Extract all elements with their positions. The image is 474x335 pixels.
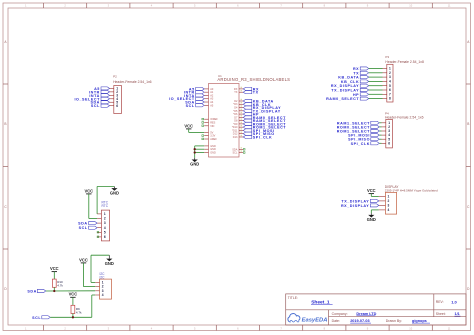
net flag SPI_MISO (U1) bbox=[243, 132, 274, 136]
svg-text:VCC: VCC bbox=[184, 123, 193, 128]
net flag RAM0_SELECT (P3 pin 8) bbox=[326, 97, 369, 101]
svg-text:Company:: Company: bbox=[332, 312, 348, 316]
svg-text:4.7k: 4.7k bbox=[57, 284, 63, 288]
svg-text:GND: GND bbox=[190, 162, 199, 167]
net flag ROM0_SELECT (U1) bbox=[243, 122, 286, 126]
svg-text:8: 8 bbox=[389, 97, 391, 101]
wire SPI_MOSI to P4 pin 4 bbox=[379, 134, 381, 136]
svg-text:SDA: SDA bbox=[78, 222, 87, 226]
svg-text:3: 3 bbox=[104, 221, 106, 225]
svg-text:VCC: VCC bbox=[79, 257, 88, 262]
svg-text:VCC: VCC bbox=[367, 188, 376, 193]
P4 pin numbers 1-6 bbox=[388, 121, 390, 145]
wire I2C pin1 to GND bbox=[91, 255, 109, 282]
net flag ROM1_SELECT (U1) bbox=[243, 126, 286, 130]
svg-text:REV:: REV: bbox=[436, 300, 444, 304]
ground GND above RTC bbox=[110, 187, 119, 196]
svg-text:RAM0_SELECT: RAM0_SELECT bbox=[326, 97, 359, 101]
P3 pin numbers 1-8 bbox=[389, 67, 391, 101]
svg-text:Header-Female 2.54_1x6: Header-Female 2.54_1x6 bbox=[113, 80, 152, 84]
net flag RX_DISPLAY (P3 pin 5) bbox=[331, 84, 369, 88]
net flag KB_CLK (U1) bbox=[243, 103, 271, 107]
P2 pin numbers 1-6 bbox=[116, 87, 118, 108]
wire VCC to RTC pin2 bbox=[89, 194, 97, 219]
svg-text:GND: GND bbox=[110, 190, 119, 195]
company field bbox=[332, 312, 377, 316]
svg-text:1: 1 bbox=[388, 195, 390, 199]
svg-text:AREF: AREF bbox=[210, 138, 217, 141]
svg-text:TX: TX bbox=[234, 91, 238, 94]
drawn-by field bbox=[386, 319, 430, 323]
wire KB_CLK to P3 pin 4 bbox=[369, 80, 383, 82]
net flag RAM1_SELECT (P4 pin 1) bbox=[337, 121, 379, 125]
svg-text:gignops: gignops bbox=[412, 319, 427, 323]
svg-text:VCC: VCC bbox=[69, 292, 78, 297]
connector DISPLAY 2205-1*4P H=8.5MM Ytype Gold-plated bbox=[379, 185, 438, 214]
net flag IO_SELECT (U1) bbox=[169, 97, 204, 101]
net flag KB_DATA (U1) bbox=[243, 99, 273, 103]
svg-text:5: 5 bbox=[104, 230, 106, 234]
svg-text:4: 4 bbox=[388, 208, 390, 212]
svg-text:SPI_CLK: SPI_CLK bbox=[253, 135, 272, 139]
ground GND below U1 bbox=[190, 158, 199, 167]
svg-text:4: 4 bbox=[102, 293, 104, 297]
svg-text:VCC: VCC bbox=[50, 266, 59, 271]
wire RAM0_SELECT to P3 pin 8 bbox=[369, 98, 383, 100]
net flag SCL (bottom left) bbox=[32, 316, 50, 320]
wire SDA to I2C pin3 bbox=[46, 290, 95, 292]
date field bbox=[332, 319, 371, 323]
power flag VCC at U1 5V bbox=[184, 123, 193, 132]
junction SDA/R10 bbox=[53, 290, 55, 292]
svg-text:SCL: SCL bbox=[91, 104, 100, 108]
svg-text:GND: GND bbox=[210, 151, 216, 154]
net flag KB_CLK (P3 pin 4) bbox=[341, 80, 369, 84]
U1 pin number marks bbox=[241, 87, 242, 152]
svg-text:2: 2 bbox=[104, 217, 106, 221]
net flag RX_DISPLAY (U1) bbox=[243, 106, 281, 110]
stub U1 SDA SCL bbox=[243, 149, 245, 154]
net flag RAM1_SELECT (U1) bbox=[243, 119, 286, 123]
svg-text:RTC: RTC bbox=[102, 204, 109, 208]
rtc module RTC bbox=[97, 200, 110, 241]
net flag SCL (P2 pin 6) bbox=[91, 104, 110, 108]
svg-text:6: 6 bbox=[388, 141, 390, 145]
no-connect stubs U1 IOREF RES VIN 3.3V AREF bbox=[202, 118, 204, 139]
net flag SDA (RTC pin3) bbox=[78, 222, 97, 226]
svg-text:P2: P2 bbox=[113, 74, 117, 78]
svg-text:RX_DISPLAY: RX_DISPLAY bbox=[341, 204, 369, 208]
U1 right pin names bbox=[232, 88, 238, 155]
net flag HP (P3 pin 7) bbox=[353, 93, 369, 97]
net flag TX_DISPLAY (DISPLAY pin2) bbox=[341, 199, 378, 203]
net flag RX_DISPLAY (DISPLAY pin3) bbox=[341, 204, 379, 208]
svg-text:1/1: 1/1 bbox=[455, 312, 460, 316]
net flag SPI_MOSI (P4 pin 4) bbox=[348, 134, 379, 138]
EasyEDA logo bbox=[288, 314, 327, 324]
wire VCC to U1 5V bbox=[189, 131, 205, 133]
connector P2 Header-Female 2.54_1x6 bbox=[110, 74, 152, 113]
wire DISPLAY pin4 to GND bbox=[371, 210, 379, 213]
net flag ROM0_SELECT (P4 pin 2) bbox=[337, 125, 380, 129]
wire SPI_CLK to P4 pin 6 bbox=[379, 142, 381, 144]
wire SPI_MISO to P4 pin 5 bbox=[379, 138, 381, 140]
net flag A5 (U1) bbox=[189, 87, 204, 91]
svg-text:2: 2 bbox=[388, 199, 390, 203]
junction U1 GND 2 bbox=[194, 151, 196, 153]
junction U1 GND 1 bbox=[194, 148, 196, 150]
net flag SCL (U1) bbox=[186, 104, 205, 108]
wire ROM0_SELECT to P4 pin 2 bbox=[379, 126, 381, 128]
net flag RAM0_SELECT (U1) bbox=[243, 116, 286, 120]
power flag VCC at RTC bbox=[84, 188, 93, 194]
power flag VCC above R9 bbox=[69, 292, 78, 298]
connector P4 Header-Female 2.54_1x6 bbox=[382, 111, 424, 147]
sheet field bbox=[436, 312, 461, 316]
svg-text:GND: GND bbox=[105, 261, 114, 266]
svg-text:SCL: SCL bbox=[186, 104, 195, 108]
svg-text:TITLE:: TITLE: bbox=[288, 296, 298, 300]
net flag SDA (P2 pin 5) bbox=[90, 101, 109, 105]
svg-text:SCL: SCL bbox=[79, 226, 88, 230]
wire SCL to I2C pin4 bbox=[50, 295, 95, 317]
svg-text:SCL: SCL bbox=[32, 316, 41, 320]
RTC pin numbers 1-6 bbox=[104, 212, 106, 239]
DISPLAY pin numbers 1-4 bbox=[388, 195, 390, 213]
svg-text:1.0: 1.0 bbox=[451, 299, 457, 304]
ground GND above I2C bbox=[105, 255, 114, 266]
svg-text:D13: D13 bbox=[233, 136, 238, 139]
power flag VCC at DISPLAY bbox=[367, 188, 376, 194]
net flag RX (U1) bbox=[243, 87, 259, 91]
svg-text:6: 6 bbox=[116, 104, 118, 108]
stub RTC pins 5-6 bbox=[97, 231, 99, 237]
net flag INTA (U1) bbox=[184, 94, 204, 98]
net flag TX (P3 pin 2) bbox=[353, 71, 368, 75]
U1 left pin names bbox=[210, 88, 218, 155]
resistor R10 4.7k bbox=[52, 272, 63, 291]
net flag A5 (P2 pin 1) bbox=[94, 87, 109, 91]
wire TX_DISPLAY to P3 pin 6 bbox=[369, 89, 383, 91]
net flag INTR (P2 pin 2) bbox=[89, 90, 109, 94]
wire U1 GND bus bbox=[195, 146, 205, 158]
svg-text:GND: GND bbox=[367, 217, 376, 222]
svg-text:Drawn By:: Drawn By: bbox=[386, 319, 402, 323]
svg-text:6: 6 bbox=[104, 235, 106, 239]
svg-text:ARDUINO_R3_SHIELDNOLABELS: ARDUINO_R3_SHIELDNOLABELS bbox=[217, 77, 290, 82]
connector P3 Header-Female 2.54_1x8 bbox=[383, 55, 424, 102]
net flag KB_DATA (P3 pin 3) bbox=[338, 76, 368, 80]
svg-text:3: 3 bbox=[388, 204, 390, 208]
wire RTC pin1 to GND bbox=[97, 187, 114, 214]
junction SCL/R9 bbox=[72, 316, 74, 318]
title text Sheet_1 bbox=[288, 296, 333, 306]
net flag SPI_MISO (P4 pin 5) bbox=[348, 138, 379, 142]
svg-text:EasyEDA: EasyEDA bbox=[302, 317, 328, 323]
title block bbox=[286, 294, 466, 325]
net flag INTA (P2 pin 3) bbox=[89, 94, 109, 98]
svg-text:4: 4 bbox=[104, 226, 106, 230]
net flag TX (U1) bbox=[243, 91, 258, 95]
net flag SPI_MOSI (U1) bbox=[243, 129, 274, 133]
connector I2C bbox=[95, 272, 111, 299]
net flag HP (U1) bbox=[243, 113, 259, 117]
net flag IO_SELECT (P2 pin 4) bbox=[74, 97, 109, 101]
resistor R9 4.7k bbox=[71, 297, 82, 317]
net flag SPI_CLK (U1) bbox=[243, 135, 272, 139]
svg-text:Header-Female 2.54_1x8: Header-Female 2.54_1x8 bbox=[385, 60, 424, 64]
rev field bbox=[436, 299, 458, 304]
svg-text:B: B bbox=[467, 122, 469, 126]
svg-text:VCC: VCC bbox=[84, 188, 93, 193]
net flag SPI_CLK (P4 pin 6) bbox=[351, 142, 380, 146]
net flag SDA (U1) bbox=[185, 100, 204, 104]
svg-text:SDA: SDA bbox=[27, 290, 36, 294]
svg-text:2205-1*4P H=8.5MM Ytype Gold-p: 2205-1*4P H=8.5MM Ytype Gold-plated bbox=[385, 189, 438, 193]
power flag VCC above R10 bbox=[50, 266, 59, 272]
svg-text:B: B bbox=[4, 122, 6, 126]
svg-text:Sheet:: Sheet: bbox=[436, 312, 446, 316]
wire RAM1_SELECT to P4 pin 1 bbox=[379, 122, 381, 124]
wire TX to P3 pin 2 bbox=[369, 72, 383, 74]
svg-text:Date:: Date: bbox=[332, 319, 340, 323]
net flag SCL (RTC pin4) bbox=[79, 226, 98, 230]
mcu U1 ARDUINO_R3_SHIELDNOLABELS bbox=[204, 74, 290, 157]
wire HP to P3 pin 7 bbox=[369, 93, 383, 95]
wire VCC to I2C pin2 bbox=[84, 263, 96, 287]
net flag RX (P3 pin 1) bbox=[353, 67, 369, 71]
ground GND below DISPLAY bbox=[367, 213, 376, 222]
svg-text:SPI_CLK: SPI_CLK bbox=[351, 142, 370, 146]
svg-text:TX_DISPLAY: TX_DISPLAY bbox=[341, 199, 369, 203]
svg-text:P3: P3 bbox=[385, 55, 389, 59]
svg-text:Dream LTD: Dream LTD bbox=[356, 312, 376, 316]
net flag INTR (U1) bbox=[184, 91, 204, 95]
I2C pin numbers 1-4 bbox=[102, 281, 104, 298]
svg-text:Header-Female 2.54_1x6: Header-Female 2.54_1x6 bbox=[385, 115, 424, 119]
svg-text:2019-07-03: 2019-07-03 bbox=[350, 319, 369, 323]
svg-text:4.7k: 4.7k bbox=[76, 310, 82, 314]
net flag TX_DISPLAY (P3 pin 6) bbox=[331, 88, 368, 92]
svg-text:TX: TX bbox=[253, 91, 259, 95]
wire ROM1_SELECT to P4 pin 3 bbox=[379, 130, 381, 132]
wire KB_DATA to P3 pin 3 bbox=[369, 76, 383, 78]
svg-text:1: 1 bbox=[104, 212, 106, 216]
wire RX_DISPLAY to P3 pin 5 bbox=[369, 85, 383, 87]
svg-text:VIN: VIN bbox=[210, 125, 214, 128]
wire VCC to DISPLAY pin1 bbox=[371, 194, 379, 197]
net flag ROM1_SELECT (P4 pin 3) bbox=[337, 129, 380, 133]
svg-text:SCL: SCL bbox=[233, 152, 238, 155]
net flag TX_DISPLAY (U1) bbox=[243, 109, 280, 113]
wire RX to P3 pin 1 bbox=[369, 68, 383, 70]
power flag VCC for I2C pin2 bbox=[79, 257, 88, 263]
net flag SDA (bottom left) bbox=[27, 289, 45, 293]
